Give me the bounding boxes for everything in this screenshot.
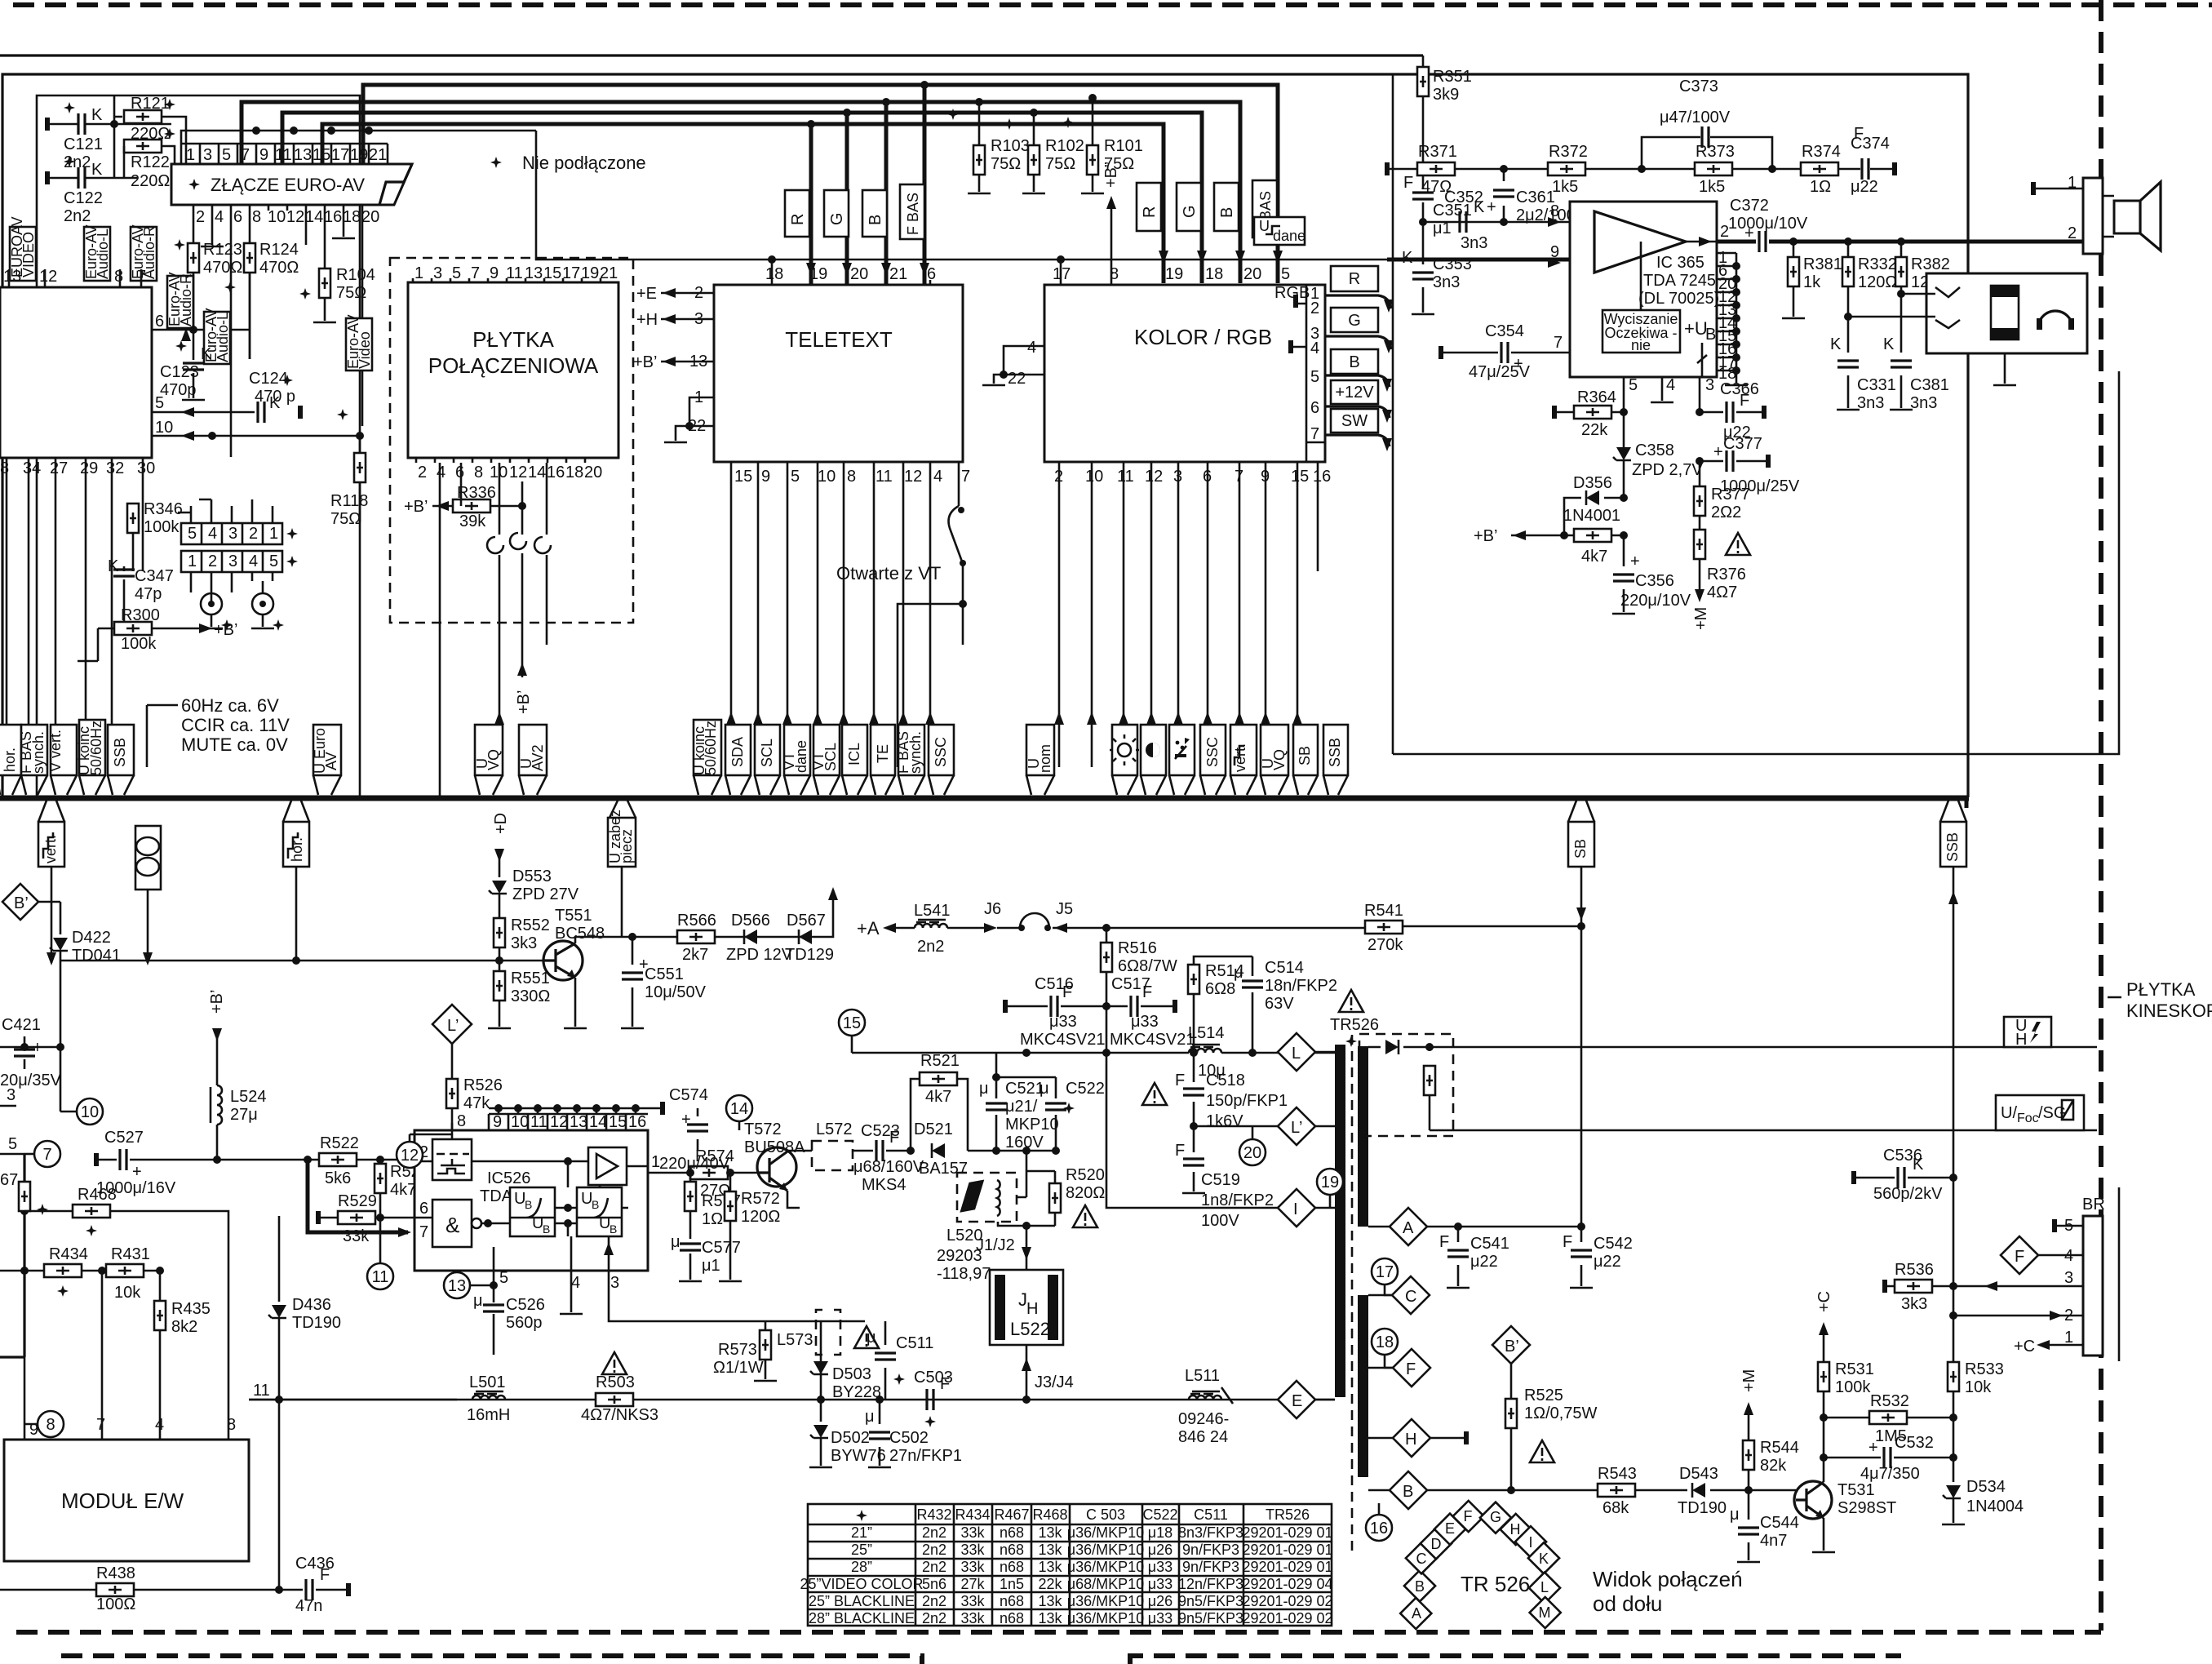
svg-text:IC526: IC526 — [487, 1169, 530, 1187]
svg-text:F: F — [1175, 1142, 1185, 1160]
svg-text:R371: R371 — [1418, 143, 1457, 161]
svg-text:MKC4SV21: MKC4SV21 — [1020, 1031, 1106, 1049]
svg-text:5: 5 — [1310, 368, 1319, 386]
svg-text:+: + — [1744, 224, 1754, 242]
svg-text:&: & — [446, 1213, 459, 1237]
svg-text:+B’: +B’ — [515, 690, 533, 714]
node F diamond BR — [2001, 1236, 2038, 1274]
svg-text:13: 13 — [294, 146, 312, 164]
svg-text:C: C — [1405, 1288, 1416, 1306]
svg-text:270k: 270k — [1368, 936, 1403, 954]
svg-text:10k: 10k — [114, 1284, 141, 1302]
svg-text:F BAS: F BAS — [905, 193, 921, 235]
diode D534 1N4004 — [1943, 1485, 1961, 1498]
svg-text:30: 30 — [137, 459, 155, 477]
svg-text:R434: R434 — [49, 1245, 88, 1263]
svg-text:5: 5 — [1629, 376, 1638, 394]
svg-text:5: 5 — [188, 525, 197, 543]
table variants — [800, 1504, 1332, 1626]
diode D567 TD129 — [799, 930, 812, 944]
svg-text:4: 4 — [208, 525, 217, 543]
teletext pin1/22 loop — [676, 397, 714, 441]
resistor R121 220ohm — [114, 117, 186, 164]
resistor EHT — [1429, 1047, 1431, 1051]
svg-text:R382: R382 — [1911, 255, 1950, 273]
wire SSB down — [1953, 867, 1955, 1178]
svg-text:2n2: 2n2 — [922, 1542, 946, 1558]
node circled 8 — [38, 1411, 64, 1437]
svg-text:nie: nie — [1631, 337, 1651, 353]
svg-text:10: 10 — [818, 468, 836, 486]
svg-text:ZPD 2,7V: ZPD 2,7V — [1632, 461, 1703, 479]
svg-text:Audio-L: Audio-L — [95, 229, 111, 279]
diode D503 BY228 — [810, 1361, 828, 1374]
svg-text:ZPD 27V: ZPD 27V — [512, 885, 579, 903]
svg-text:ZŁĄCZE EURO-AV: ZŁĄCZE EURO-AV — [211, 175, 365, 195]
svg-text:1000μ/10V: 1000μ/10V — [1728, 215, 1808, 233]
svg-text:R529: R529 — [338, 1192, 377, 1210]
svg-text:R103: R103 — [991, 137, 1030, 155]
rca socket right — [252, 593, 273, 615]
svg-text:1n5: 1n5 — [1000, 1576, 1024, 1592]
tag flag TE — [871, 725, 895, 775]
capacitor C516 u33 MKC4SV21 — [1005, 1005, 1106, 1008]
svg-text:μ: μ — [1730, 1506, 1740, 1524]
svg-text:2k7: 2k7 — [682, 946, 708, 964]
svg-text:J3/J4: J3/J4 — [1035, 1373, 1074, 1391]
svg-text:B: B — [543, 1222, 550, 1236]
IC526 Ub box 2 — [577, 1187, 622, 1236]
tag box SW right of kolor — [1331, 409, 1378, 433]
svg-text:nom: nom — [1037, 744, 1053, 773]
svg-text:PŁYTKA: PŁYTKA — [2126, 979, 2196, 1000]
wire pin7 heavy — [308, 1160, 408, 1232]
wire pin4 gnd — [211, 211, 214, 245]
wire pin20 down — [361, 211, 364, 426]
resistor R574 27ohm — [690, 1166, 728, 1179]
svg-text:K: K — [91, 161, 103, 179]
svg-text:C518: C518 — [1206, 1072, 1245, 1089]
svg-text:μ18: μ18 — [1148, 1524, 1172, 1541]
svg-text:KINESKOPU: KINESKOPU — [2126, 1001, 2212, 1021]
svg-text:R336: R336 — [457, 484, 496, 502]
wire audio output thick — [1716, 240, 2083, 244]
resistor R122 220ohm — [124, 146, 175, 164]
svg-text:C361: C361 — [1516, 189, 1555, 206]
resistor R346 100k — [132, 504, 135, 506]
svg-text:+12V: +12V — [1335, 384, 1374, 402]
svg-text:R364: R364 — [1577, 388, 1616, 406]
chassis dashed border right — [2099, 0, 2103, 1631]
svg-text:14: 14 — [730, 1100, 748, 1118]
svg-text:16mH: 16mH — [467, 1406, 510, 1424]
svg-text:09246-: 09246- — [1178, 1410, 1229, 1428]
svg-text:K: K — [1830, 335, 1842, 353]
svg-text:C122: C122 — [64, 189, 103, 207]
wire +A line — [889, 927, 1106, 930]
connector BR — [2083, 1216, 2103, 1356]
svg-text:R431: R431 — [111, 1245, 150, 1263]
node circled 20 — [1239, 1139, 1266, 1165]
svg-text:12: 12 — [39, 268, 57, 286]
wire pin1 line — [648, 1172, 690, 1174]
tag Euro-AV Audio-R mid — [167, 276, 193, 328]
wire coil down — [147, 890, 149, 963]
svg-text:R118: R118 — [330, 492, 368, 510]
svg-text:B: B — [867, 215, 884, 225]
speaker connector — [2083, 178, 2103, 254]
svg-text:16: 16 — [1370, 1520, 1388, 1538]
svg-text:L572: L572 — [816, 1120, 853, 1138]
svg-text:22k: 22k — [1038, 1576, 1062, 1592]
svg-text:F: F — [1062, 983, 1072, 1001]
svg-text:+M: +M — [1740, 1369, 1758, 1392]
wire audio return bottom — [1393, 371, 2119, 754]
svg-text:9: 9 — [29, 1421, 38, 1439]
svg-text:5: 5 — [222, 146, 231, 164]
wire hor tag down to base line — [295, 867, 298, 961]
svg-text:R531: R531 — [1835, 1360, 1874, 1378]
tag flag U AV2 — [519, 725, 547, 775]
IC526 oscillator box — [432, 1139, 472, 1180]
svg-text:470Ω: 470Ω — [203, 259, 242, 277]
pin G diamond — [1480, 1502, 1511, 1533]
svg-text:29: 29 — [80, 459, 98, 477]
IC526 top pin boxes 9-16 — [489, 1114, 648, 1130]
svg-text:+B’: +B’ — [208, 990, 226, 1014]
svg-text:34: 34 — [23, 459, 41, 477]
svg-text:29201-029 04: 29201-029 04 — [1242, 1576, 1332, 1592]
resistor R566 2k7 — [677, 930, 715, 943]
svg-text:12: 12 — [550, 1113, 568, 1131]
wire pin3 to right — [609, 1271, 865, 1321]
svg-text:13k: 13k — [1038, 1559, 1062, 1575]
svg-text:18: 18 — [565, 464, 583, 481]
svg-text:15: 15 — [734, 468, 752, 486]
pin I diamond — [1515, 1526, 1546, 1557]
svg-text:C331: C331 — [1857, 376, 1896, 394]
tag flag SSC — [929, 725, 954, 775]
svg-text:50/60Hz: 50/60Hz — [88, 721, 104, 775]
svg-text:G: G — [1181, 205, 1199, 218]
tag box F BAS above teletext — [900, 184, 924, 239]
arrows down on columns — [806, 263, 816, 276]
svg-text:10μ/50V: 10μ/50V — [645, 983, 707, 1001]
svg-text:C373: C373 — [1679, 78, 1718, 95]
diode D502 BYW76 — [820, 1400, 822, 1422]
capacitor C124 470p — [258, 402, 264, 423]
svg-text:hor.: hor. — [2, 748, 18, 772]
svg-text:A: A — [1412, 1605, 1421, 1622]
svg-text:T551: T551 — [555, 907, 592, 925]
svg-text:C 503: C 503 — [1086, 1506, 1125, 1523]
resistor R573 — [765, 1321, 767, 1330]
svg-text:8n3/FKP3: 8n3/FKP3 — [1178, 1524, 1243, 1541]
tag box G above kolor — [1177, 183, 1201, 231]
svg-text:R516: R516 — [1118, 939, 1157, 957]
svg-text:8: 8 — [0, 459, 9, 477]
svg-text:27μ: 27μ — [230, 1106, 258, 1124]
resistor R118 75ohm — [359, 436, 361, 453]
svg-text:BA157: BA157 — [919, 1160, 968, 1178]
svg-text:R467: R467 — [994, 1506, 1029, 1523]
capacitor C347 47p — [123, 566, 126, 596]
svg-text:R346: R346 — [144, 500, 183, 518]
svg-text:D566: D566 — [731, 912, 770, 930]
svg-text:7: 7 — [96, 1416, 105, 1434]
capacitor C514 18n/FKP2 63V — [1252, 956, 1254, 1053]
svg-text:F: F — [1406, 1360, 1416, 1378]
wires kolor bottom to bus — [1059, 462, 1318, 767]
svg-text:7: 7 — [1554, 334, 1563, 352]
svg-text:2n2: 2n2 — [922, 1559, 946, 1575]
svg-text:G: G — [828, 212, 846, 225]
wire pin8 line — [1423, 221, 1570, 224]
svg-text:F: F — [1854, 125, 1864, 143]
svg-text:22k: 22k — [1581, 421, 1608, 439]
diode D356 1N4001 loop — [1564, 498, 1624, 535]
svg-text:R124: R124 — [259, 241, 299, 259]
resistor R532 1M5 — [1824, 1417, 1953, 1419]
svg-text:1N4004: 1N4004 — [1966, 1498, 2024, 1515]
svg-text:7: 7 — [1310, 425, 1319, 443]
wire teletext G column — [845, 113, 849, 285]
jumper J5 — [1054, 923, 1067, 933]
svg-text:C577: C577 — [702, 1239, 741, 1257]
svg-text:μ33: μ33 — [1049, 1013, 1077, 1031]
tag box G right of kolor — [1331, 308, 1378, 332]
svg-text:18n/FKP2: 18n/FKP2 — [1265, 977, 1337, 995]
wire left thick column — [0, 1154, 24, 1357]
svg-text:F: F — [2015, 1248, 2024, 1266]
capacitor C121 2n2 — [49, 123, 171, 126]
svg-text:μ1: μ1 — [702, 1257, 720, 1275]
svg-text:K: K — [1913, 1156, 1924, 1174]
svg-text:4n7: 4n7 — [1760, 1532, 1787, 1550]
svg-text:21: 21 — [369, 146, 387, 164]
svg-text:13: 13 — [525, 264, 543, 282]
svg-text:R: R — [1349, 270, 1360, 288]
node circled 10 — [77, 1098, 103, 1125]
svg-text:12n/FKP3: 12n/FKP3 — [1178, 1576, 1243, 1592]
capacitor C523 u68/160V MKS4 — [876, 1140, 883, 1161]
svg-text:n68: n68 — [1000, 1593, 1024, 1609]
svg-text:9n/FKP3: 9n/FKP3 — [1182, 1542, 1239, 1558]
svg-text:I: I — [1528, 1534, 1532, 1551]
pin K diamond — [1528, 1542, 1559, 1573]
svg-text:8: 8 — [252, 208, 261, 226]
capacitor C532 4u7/350 — [1824, 1457, 1953, 1459]
svg-text:C519: C519 — [1201, 1171, 1240, 1189]
svg-text:R381: R381 — [1803, 255, 1842, 273]
svg-text:IC 365: IC 365 — [1656, 254, 1704, 272]
svg-text:9: 9 — [761, 468, 770, 486]
svg-text:25”VIDEO COLOR: 25”VIDEO COLOR — [800, 1576, 923, 1592]
svg-text:F: F — [889, 1129, 899, 1147]
pin L diamond — [1529, 1573, 1560, 1604]
svg-text:5: 5 — [499, 1269, 508, 1287]
svg-text:SB: SB — [1297, 746, 1313, 765]
wire R431 verticals — [102, 1271, 160, 1397]
plytka bottom pin labels — [418, 464, 602, 481]
svg-text:Video: Video — [357, 331, 373, 369]
svg-text:J5: J5 — [1056, 900, 1073, 918]
svg-text:3: 3 — [610, 1274, 619, 1292]
svg-text:75Ω: 75Ω — [991, 155, 1021, 173]
svg-text:2n2: 2n2 — [917, 938, 944, 956]
svg-text:75Ω: 75Ω — [330, 510, 361, 528]
svg-text:MKP10: MKP10 — [1005, 1116, 1059, 1134]
svg-text:D422: D422 — [72, 929, 111, 947]
tag box R above kolor — [1137, 183, 1161, 231]
svg-text:16: 16 — [547, 464, 565, 481]
svg-text:C372: C372 — [1730, 197, 1769, 215]
capacitor C351 u1 — [1422, 188, 1425, 202]
svg-text:μ36/MKP10: μ36/MKP10 — [1067, 1542, 1144, 1558]
svg-text:1k5: 1k5 — [1699, 178, 1725, 196]
capacitor C521 u21/MKP10 160V — [968, 1053, 1056, 1151]
tag box +12V right of kolor — [1331, 380, 1378, 404]
warning triangle mid — [1142, 1083, 1167, 1105]
svg-text:C421: C421 — [2, 1016, 41, 1034]
svg-text:+C: +C — [1815, 1291, 1833, 1312]
node L' diamond right — [1278, 1107, 1315, 1145]
svg-text:L’: L’ — [447, 1017, 459, 1035]
svg-text:L524: L524 — [230, 1088, 267, 1106]
svg-text:R525: R525 — [1524, 1387, 1563, 1404]
svg-text:+: + — [1487, 198, 1496, 216]
svg-text:29201-029 01: 29201-029 01 — [1242, 1559, 1332, 1575]
svg-text:C377: C377 — [1723, 435, 1762, 453]
resistor R104 75ohm — [319, 268, 330, 298]
coil L501 16mH — [249, 1399, 457, 1401]
svg-text:+C: +C — [2014, 1338, 2035, 1356]
wire L' line — [1194, 1125, 1278, 1128]
svg-text:R102: R102 — [1045, 137, 1084, 155]
connector top pin wire — [181, 131, 536, 144]
svg-text:G: G — [1348, 312, 1361, 330]
svg-text:K: K — [1883, 335, 1895, 353]
resistor R468 — [24, 1211, 228, 1397]
tag flag ICL — [842, 725, 867, 775]
warning triangle L573 — [854, 1326, 879, 1348]
svg-text:ICL: ICL — [846, 743, 862, 765]
svg-text:3: 3 — [203, 146, 212, 164]
svg-text:C532: C532 — [1895, 1434, 1934, 1452]
svg-text:4: 4 — [215, 208, 224, 226]
svg-text:C354: C354 — [1485, 322, 1524, 340]
svg-text:B: B — [1403, 1483, 1413, 1501]
node I diamond — [1278, 1189, 1315, 1227]
svg-text:25”: 25” — [851, 1542, 872, 1558]
svg-text:6: 6 — [455, 464, 464, 481]
wire pin8 down — [249, 211, 251, 359]
svg-text:B: B — [1218, 207, 1236, 218]
svg-text:11: 11 — [1117, 468, 1134, 486]
resistor R357 4k7 — [1511, 535, 1624, 537]
resistor R123 470ohm — [193, 243, 195, 253]
svg-text:4k7: 4k7 — [925, 1088, 951, 1106]
svg-text:C514: C514 — [1265, 959, 1304, 977]
coil L514 10u — [1189, 1045, 1221, 1053]
node C diamond — [1392, 1276, 1430, 1314]
svg-text:5k6: 5k6 — [325, 1169, 351, 1187]
svg-text:K: K — [91, 106, 103, 124]
diode D543 TD190 — [1692, 1483, 1705, 1498]
capacitor C331 3n3 — [1847, 317, 1850, 408]
svg-text:1000μ/16V: 1000μ/16V — [96, 1179, 176, 1197]
wire c121/c122 columns — [113, 95, 116, 178]
svg-text:16: 16 — [324, 208, 342, 226]
svg-text:3n3: 3n3 — [1433, 273, 1460, 291]
wire teletext R column — [809, 124, 813, 285]
svg-text:μ: μ — [1040, 1080, 1049, 1098]
chassis dashed border top — [13, 2, 2212, 7]
wire U H line — [1430, 1046, 2097, 1049]
svg-text:μ36/MKP10: μ36/MKP10 — [1067, 1593, 1144, 1609]
svg-text:C124: C124 — [249, 370, 288, 388]
svg-text:R434: R434 — [955, 1506, 990, 1523]
tag flag SB below bus — [1568, 801, 1594, 822]
svg-text:5: 5 — [1281, 265, 1290, 283]
svg-text:4: 4 — [933, 468, 942, 486]
svg-text:20: 20 — [361, 208, 379, 226]
pin H diamond — [1501, 1514, 1532, 1545]
svg-text:3: 3 — [228, 552, 237, 570]
svg-text:68k: 68k — [1602, 1499, 1629, 1517]
resistor R577 1ohm — [689, 1173, 692, 1182]
svg-text:E: E — [1292, 1392, 1302, 1410]
wire heavy bus L4 from euro-av pin19 — [363, 85, 1278, 283]
svg-text:10: 10 — [155, 419, 173, 437]
capacitor C366 u22 — [1700, 411, 1762, 414]
svg-text:μ26: μ26 — [1148, 1593, 1172, 1609]
svg-text:+: + — [1713, 443, 1723, 461]
node circled 13 — [444, 1272, 470, 1298]
wire U dane feed — [536, 131, 1387, 260]
svg-text:+B’: +B’ — [404, 498, 428, 516]
svg-text:9: 9 — [490, 264, 499, 282]
resistor R431 10k — [102, 1270, 160, 1272]
svg-text:3n3: 3n3 — [1910, 394, 1937, 412]
svg-text:R438: R438 — [96, 1564, 135, 1582]
svg-text:C347: C347 — [135, 567, 174, 585]
svg-text:piecz: piecz — [618, 829, 635, 863]
svg-text:1k6V: 1k6V — [1206, 1112, 1243, 1130]
wire 11 line from modul — [249, 1399, 1335, 1401]
svg-text:μ33: μ33 — [1148, 1576, 1172, 1592]
bracket line plytka kineskopu — [2118, 1187, 2121, 1361]
node F diamond — [1393, 1349, 1430, 1387]
svg-text:n68: n68 — [1000, 1542, 1024, 1558]
node L diamond — [1278, 1033, 1315, 1071]
svg-text:Foc: Foc — [2017, 1112, 2039, 1125]
svg-text:9n5/FKP3: 9n5/FKP3 — [1178, 1593, 1243, 1609]
pin E diamond — [1434, 1514, 1465, 1545]
node B diamond right — [1390, 1471, 1427, 1509]
svg-text:11: 11 — [530, 1113, 547, 1131]
svg-text:120Ω: 120Ω — [741, 1208, 780, 1226]
jumper link — [1020, 913, 1049, 928]
tag flag U VQ right — [1261, 725, 1288, 775]
svg-text:B’: B’ — [14, 894, 29, 912]
svg-text:R573: R573 — [718, 1341, 757, 1359]
svg-text:L: L — [1292, 1045, 1301, 1063]
resistor R521 4k7 loop — [911, 1079, 968, 1151]
svg-text:R566: R566 — [677, 912, 716, 930]
teletext top pin labels — [765, 265, 936, 283]
wire pin14 — [305, 211, 308, 245]
